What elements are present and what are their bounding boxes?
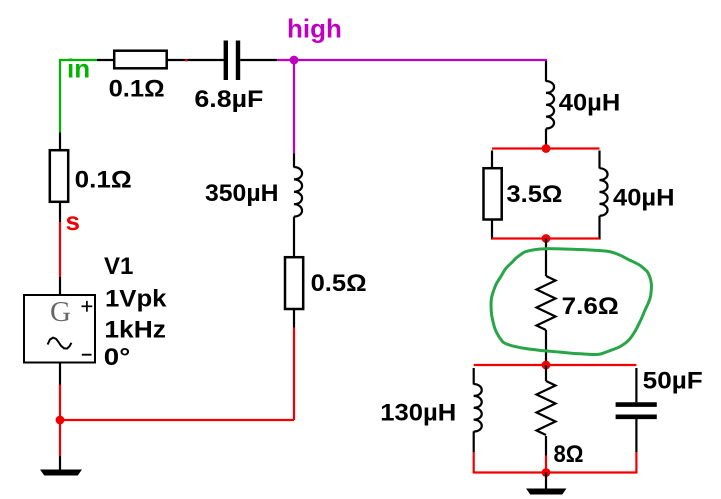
junction high dot	[290, 56, 299, 65]
svg-text:7.6Ω: 7.6Ω	[562, 293, 619, 320]
label 0.1ohm R1	[109, 76, 165, 103]
wire L4 top black	[473, 368, 475, 385]
source V1 sine wave	[48, 338, 72, 349]
junction dot bottom box bottom	[542, 468, 551, 477]
wire parallel right top	[598, 151, 600, 169]
wire C1 to high node purple part	[277, 59, 294, 61]
wire bottom box bottom red	[474, 471, 637, 473]
wire R2 bottom black	[59, 202, 61, 222]
red speck on wire	[185, 59, 188, 61]
junction dot parallel bottom	[542, 234, 551, 243]
wire node to R5	[545, 239, 547, 277]
label 40uH L2	[613, 185, 675, 212]
wire s red	[59, 222, 61, 277]
svg-text:0.1Ω: 0.1Ω	[75, 166, 132, 193]
wire in vertical green	[59, 59, 61, 133]
wire parallel bottom red	[492, 237, 600, 239]
wire R6 bottom red	[545, 456, 547, 473]
svg-text:6.8µF: 6.8µF	[194, 86, 263, 113]
wire to ground 2	[545, 473, 547, 490]
wire C1 to high node black part	[240, 59, 277, 61]
svg-text:40µH: 40µH	[613, 185, 675, 212]
wire R3 red down	[293, 328, 295, 421]
svg-text:0.1Ω: 0.1Ω	[109, 76, 165, 103]
wire R6 bottom black	[545, 436, 547, 456]
label 350uH	[205, 180, 279, 207]
svg-text:G: G	[50, 296, 71, 328]
label 3.5ohm	[506, 181, 562, 208]
node in (green net name)	[67, 54, 90, 84]
label 7.6ohm	[562, 293, 619, 320]
inductor L2 40uH	[600, 168, 608, 216]
junction dot parallel top	[542, 144, 551, 153]
wire parallel left top	[491, 151, 493, 168]
resistor R3 0.5ohm	[285, 257, 303, 309]
wire C2 bottom black	[635, 419, 637, 452]
wire high corner down black	[545, 61, 547, 82]
resistor R4 3.5ohm	[484, 168, 502, 219]
svg-text:s: s	[66, 206, 80, 236]
wire R1 to C1	[167, 59, 224, 61]
capacitor C1 6.8uF	[226, 41, 238, 81]
wire R5 to node	[545, 330, 547, 365]
svg-text:1kHz: 1kHz	[104, 316, 165, 343]
source V1 plus sign	[82, 301, 93, 312]
wire high horizontal purple	[294, 59, 547, 61]
svg-text:in: in	[67, 54, 90, 84]
junction dot bottom left	[56, 416, 65, 425]
svg-text:50µF: 50µF	[643, 367, 703, 394]
node high label	[287, 13, 342, 43]
wire C2 bottom red	[635, 452, 637, 474]
source V1 minus sign	[82, 354, 92, 356]
svg-text:0.5Ω: 0.5Ω	[311, 270, 367, 297]
wire R2 top black	[59, 133, 61, 151]
junction dot bottom box top	[542, 361, 551, 370]
label 0deg	[104, 344, 131, 371]
svg-text:1Vpk: 1Vpk	[105, 286, 167, 313]
label 1kHz	[104, 316, 165, 343]
resistor R6 8ohm zigzag	[537, 381, 556, 435]
wire V1 bottom red	[59, 385, 61, 457]
wire high vertical purple	[293, 60, 295, 154]
inductor L3 350uH	[294, 167, 302, 217]
wire parallel top red	[492, 147, 600, 149]
svg-text:3.5Ω: 3.5Ω	[506, 181, 562, 208]
wire L3 to R3	[293, 217, 295, 256]
source V1 letter G	[50, 296, 71, 328]
label V1	[104, 253, 133, 280]
source V1 box	[24, 295, 95, 363]
inductor L1 40uH	[546, 81, 554, 129]
svg-text:V1: V1	[104, 253, 133, 280]
label 6.8uF	[194, 86, 263, 113]
wire R6 top black	[545, 365, 547, 381]
wire V1 bottom black	[59, 363, 61, 385]
svg-text:high: high	[287, 13, 342, 43]
label 50uF	[643, 367, 703, 394]
label 0.5ohm	[311, 270, 367, 297]
wire to ground black	[59, 456, 61, 470]
wire R3 black below	[293, 310, 295, 328]
svg-text:40µH: 40µH	[559, 90, 621, 117]
label 0.1ohm R2	[75, 166, 132, 193]
wire L4 bottom black	[473, 431, 475, 452]
wire parallel right bottom	[598, 216, 600, 240]
label 1Vpk	[105, 286, 167, 313]
wire in horizontal green	[59, 59, 97, 61]
inductor L4 130uH	[474, 384, 482, 432]
wire black to V1	[59, 277, 61, 294]
wire black to L3	[293, 154, 295, 168]
wire C2 top black	[635, 368, 637, 402]
resistor R1 0.1ohm horizontal	[114, 51, 167, 69]
resistor R2 0.1ohm vertical	[50, 150, 68, 202]
wire L1 to node	[545, 129, 547, 149]
wire L4 bottom red	[473, 452, 475, 474]
wire black to R1	[97, 59, 114, 61]
svg-text:130µH: 130µH	[380, 400, 456, 427]
label 40uH L1	[559, 90, 621, 117]
ground G2	[527, 489, 566, 494]
svg-text:350µH: 350µH	[205, 180, 279, 207]
wire bottom red horizontal	[60, 419, 294, 421]
label 130uH	[380, 400, 456, 427]
label 8ohm	[554, 441, 584, 468]
svg-text:0°: 0°	[104, 344, 131, 371]
annotation green blob	[491, 249, 651, 355]
wire parallel left bottom	[491, 221, 493, 240]
resistor R5 7.6ohm zigzag	[537, 276, 556, 330]
ground G1	[41, 470, 81, 475]
node s label	[66, 206, 80, 236]
capacitor C2 50uF	[616, 405, 657, 417]
svg-text:8Ω: 8Ω	[554, 441, 584, 468]
wire bottom box top red	[474, 364, 637, 366]
